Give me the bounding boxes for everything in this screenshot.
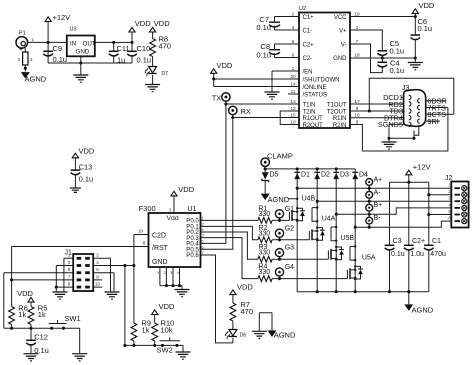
svg-text:4: 4	[96, 260, 99, 265]
svg-text:/RST: /RST	[152, 245, 169, 252]
svg-text:SGND5: SGND5	[378, 120, 403, 129]
svg-text:U3: U3	[70, 27, 77, 33]
svg-text:B-: B-	[374, 215, 382, 222]
svg-text:0.1u: 0.1u	[34, 346, 49, 355]
svg-text:VDD: VDD	[159, 302, 175, 311]
svg-text:1u: 1u	[117, 56, 125, 65]
svg-text:T1IN: T1IN	[303, 102, 316, 108]
svg-text:VDD: VDD	[154, 19, 170, 28]
svg-text:1k: 1k	[18, 310, 26, 319]
svg-text:0.1u: 0.1u	[390, 46, 405, 55]
svg-text:/STATUS: /STATUS	[303, 92, 327, 98]
svg-text:470: 470	[241, 307, 254, 316]
svg-text:0.1u: 0.1u	[53, 55, 68, 64]
svg-text:330: 330	[259, 230, 271, 237]
svg-text:J2: J2	[445, 175, 453, 182]
svg-text:U1: U1	[188, 206, 197, 213]
svg-text:/SHUTDOWN: /SHUTDOWN	[303, 77, 340, 83]
svg-text:VDD: VDD	[17, 289, 33, 298]
svg-text:CLAMP: CLAMP	[267, 152, 293, 161]
svg-text:0.1u: 0.1u	[79, 175, 94, 184]
svg-text:AGND: AGND	[268, 195, 290, 204]
svg-text:1: 1	[202, 216, 204, 221]
svg-text:17: 17	[354, 99, 360, 105]
svg-text:B+: B+	[374, 202, 383, 209]
svg-text:11: 11	[291, 89, 296, 95]
svg-text:C1-: C1-	[303, 28, 313, 34]
svg-text:U4B: U4B	[302, 196, 316, 203]
svg-text:3: 3	[30, 57, 33, 62]
svg-text:C1+: C1+	[303, 15, 315, 21]
svg-text:VDD: VDD	[178, 185, 194, 194]
svg-text:330: 330	[259, 211, 271, 218]
svg-text:7: 7	[202, 250, 204, 255]
svg-text:G4: G4	[285, 264, 294, 271]
svg-text:20: 20	[290, 74, 296, 80]
svg-text:AGND: AGND	[274, 331, 296, 340]
svg-text:0.1u: 0.1u	[418, 24, 433, 33]
svg-text:8: 8	[356, 106, 359, 112]
svg-text:7: 7	[356, 39, 359, 45]
svg-text:12: 12	[290, 106, 296, 112]
svg-text:8: 8	[96, 274, 99, 279]
svg-text:330: 330	[259, 250, 271, 257]
svg-text:C2+: C2+	[303, 42, 315, 48]
svg-text:0.1u: 0.1u	[137, 56, 152, 65]
svg-text:GND: GND	[333, 56, 347, 62]
svg-text:18: 18	[354, 52, 360, 58]
svg-text:U2: U2	[299, 6, 306, 12]
svg-text:G3: G3	[285, 245, 294, 252]
svg-text:C9: C9	[53, 44, 63, 53]
svg-text:19: 19	[354, 11, 360, 17]
svg-text:470: 470	[159, 42, 172, 51]
svg-text:10: 10	[138, 229, 144, 235]
svg-text:P0.6: P0.6	[186, 252, 199, 259]
svg-text:GND: GND	[76, 49, 90, 56]
svg-text:13: 13	[290, 99, 296, 105]
svg-text:C3: C3	[393, 238, 402, 245]
svg-text:5: 5	[292, 39, 295, 45]
svg-text:6: 6	[292, 52, 295, 58]
svg-text:5: 5	[68, 267, 71, 272]
svg-text:C1: C1	[432, 238, 441, 245]
svg-text:2: 2	[96, 253, 99, 258]
svg-text:10k: 10k	[161, 326, 173, 335]
svg-text:VDD: VDD	[217, 61, 233, 70]
svg-text:4: 4	[292, 25, 295, 31]
svg-text:P1: P1	[19, 31, 26, 37]
svg-text:0.1u: 0.1u	[391, 251, 405, 258]
svg-text:D4: D4	[359, 172, 368, 179]
svg-text:Vdd: Vdd	[167, 215, 179, 222]
svg-text:0.1u: 0.1u	[390, 66, 405, 75]
svg-text:1: 1	[32, 37, 35, 42]
svg-text:6: 6	[96, 267, 99, 272]
svg-text:U4A: U4A	[322, 216, 336, 223]
svg-text:OUT: OUT	[83, 40, 96, 47]
svg-text:15: 15	[290, 112, 296, 118]
svg-text:T1OUT: T1OUT	[327, 102, 347, 108]
svg-text:R1IN: R1IN	[333, 116, 347, 122]
svg-text:9: 9	[356, 119, 359, 125]
svg-text:R1OUT: R1OUT	[303, 116, 324, 122]
svg-text:D5: D5	[270, 172, 279, 179]
svg-text:3: 3	[356, 25, 359, 31]
svg-text:1: 1	[68, 253, 71, 258]
svg-text:AGND: AGND	[25, 75, 47, 84]
svg-text:A-: A-	[374, 189, 382, 196]
svg-text:RX: RX	[241, 107, 251, 116]
svg-text:TX: TX	[212, 93, 222, 102]
svg-text:C10: C10	[137, 44, 151, 53]
svg-text:8: 8	[143, 241, 146, 247]
svg-text:9RI: 9RI	[427, 117, 438, 126]
svg-text:+12V: +12V	[413, 163, 431, 172]
svg-text:C13: C13	[79, 163, 93, 172]
svg-text:2: 2	[18, 57, 21, 62]
svg-text:IN: IN	[70, 40, 76, 47]
svg-text:VCC: VCC	[334, 15, 347, 21]
svg-text:J3: J3	[402, 85, 410, 92]
svg-text:470u: 470u	[430, 251, 446, 258]
svg-text:R2OUT: R2OUT	[303, 123, 324, 129]
svg-text:6: 6	[202, 244, 204, 249]
svg-text:10: 10	[290, 119, 296, 125]
svg-text:D3: D3	[340, 172, 349, 179]
svg-text:2: 2	[202, 222, 204, 227]
svg-text:C2-: C2-	[303, 56, 313, 62]
svg-text:G1: G1	[285, 206, 294, 213]
svg-text:D1: D1	[301, 172, 310, 179]
svg-text:T2IN: T2IN	[303, 109, 316, 115]
svg-text:SW1: SW1	[64, 314, 80, 323]
svg-text:/EN: /EN	[303, 69, 313, 75]
svg-text:16: 16	[354, 112, 360, 118]
svg-text:10: 10	[95, 282, 101, 287]
svg-text:7: 7	[68, 274, 71, 279]
svg-text:C2+: C2+	[412, 238, 425, 245]
svg-text:+12V: +12V	[53, 13, 71, 22]
svg-text:1k: 1k	[142, 326, 150, 335]
svg-text:0.1u: 0.1u	[256, 23, 271, 32]
svg-text:C11: C11	[117, 44, 130, 53]
svg-text:V-: V-	[341, 42, 347, 48]
svg-text:GND: GND	[152, 259, 168, 266]
svg-text:2: 2	[292, 11, 295, 17]
svg-text:AGND: AGND	[412, 306, 434, 315]
svg-text:D7: D7	[162, 71, 169, 77]
svg-text:U5A: U5A	[362, 255, 376, 262]
svg-text:D6: D6	[240, 333, 247, 339]
svg-text:R2IN: R2IN	[333, 123, 347, 129]
svg-text:1: 1	[292, 66, 295, 72]
svg-text:SW2: SW2	[157, 346, 173, 355]
svg-text:VDD: VDD	[237, 282, 253, 291]
svg-text:330: 330	[259, 269, 271, 276]
svg-text:D2: D2	[321, 172, 330, 179]
svg-text:A+: A+	[374, 177, 383, 184]
svg-text:1k: 1k	[38, 310, 46, 319]
svg-text:C12: C12	[34, 333, 48, 342]
svg-text:0.1u: 0.1u	[256, 51, 271, 60]
svg-text:5: 5	[202, 239, 204, 244]
svg-text:1.0u: 1.0u	[410, 251, 424, 258]
svg-text:G2: G2	[285, 225, 294, 232]
svg-text:U5B: U5B	[340, 235, 354, 242]
svg-text:T2OUT: T2OUT	[327, 109, 347, 115]
svg-text:/ONLINE: /ONLINE	[303, 85, 327, 91]
svg-text:VDD: VDD	[79, 147, 95, 156]
svg-text:9: 9	[68, 282, 71, 287]
svg-text:3: 3	[202, 233, 204, 238]
svg-text:F300: F300	[139, 204, 156, 213]
svg-text:V+: V+	[339, 28, 347, 34]
svg-text:C2D: C2D	[152, 232, 166, 239]
svg-text:14: 14	[290, 81, 296, 87]
svg-text:3: 3	[68, 260, 71, 265]
svg-text:VDD: VDD	[419, 1, 435, 10]
svg-text:VDD: VDD	[135, 19, 151, 28]
